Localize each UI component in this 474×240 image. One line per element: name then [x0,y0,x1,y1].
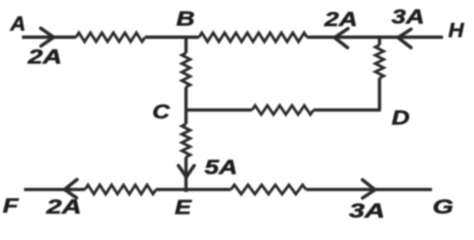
svg-text:2A: 2A [27,46,62,69]
wire C to resistor (C-D rung) [186,108,252,111]
resistor E-G (bottom-right) [231,185,306,194]
arrow 2A into A (rightwards) [41,28,54,46]
resistor B-C (vertical) [182,53,190,87]
svg-text:3A: 3A [349,200,385,223]
arrow 5A (downwards into E) [178,166,194,178]
svg-text:5A: 5A [205,156,238,179]
arrow 2A (leftwards, bottom) [65,180,78,198]
svg-text:D: D [392,107,410,130]
svg-text:B: B [176,8,195,31]
svg-text:E: E [175,196,193,219]
resistor C-E (vertical) [182,124,190,157]
svg-text:G: G [433,196,454,219]
wire resistor down to corner D [378,78,381,110]
wire resistor to node C [184,87,187,124]
arrow 3A (leftwards, near H) [398,29,411,47]
wire resistor to node E [156,188,231,191]
resistor F-E (bottom-left) [85,185,156,194]
svg-text:H: H [448,19,465,42]
arrow 2A (leftwards, top right) [335,29,349,48]
svg-text:A: A [9,13,26,36]
wire A to B (top-left segment) [22,36,76,39]
wire resistor to G [306,188,432,191]
wire H-branch junction down to resistor [378,37,381,45]
svg-text:F: F [3,195,19,218]
resistor B to top-right [199,33,307,42]
wire top-right to H [307,36,443,39]
svg-text:2A: 2A [323,8,357,31]
svg-text:3A: 3A [392,6,425,29]
wire resistor to corner D [314,108,381,111]
arrow 3A (rightwards, bottom) [363,180,376,198]
wire F to arrow (bottom-left) [24,188,85,191]
svg-text:C: C [152,101,171,124]
resistor A-B [76,33,145,42]
wire B down to resistor [184,37,187,53]
resistor C-D [252,106,314,115]
wire resistor to node B [145,36,199,39]
resistor H-D (vertical) [375,45,383,78]
wire resistor to node E with 5A arrow shaft [184,157,187,192]
svg-text:2A: 2A [45,196,81,219]
